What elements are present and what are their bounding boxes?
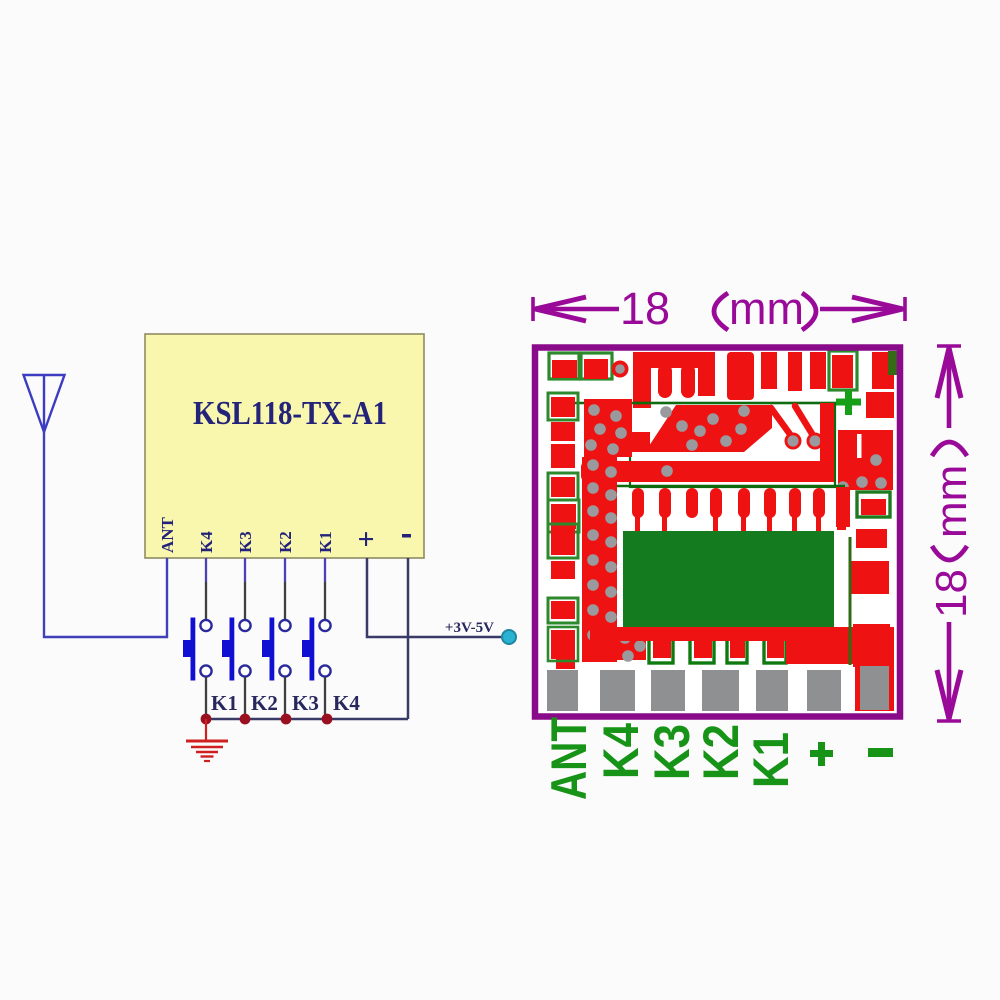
dimension text 18 (mm) horizontal — [620, 283, 816, 334]
copper block mid-left with vias — [584, 399, 632, 457]
svg-text:mm: mm — [927, 465, 976, 538]
pad K4 gray — [600, 670, 635, 711]
label K3 — [292, 691, 319, 715]
power +3V-5V — [445, 620, 516, 644]
svg-text:K4: K4 — [593, 723, 649, 779]
label K4 — [333, 691, 360, 715]
label K2 — [251, 691, 278, 715]
push button S3 — [262, 618, 291, 720]
silk pad right R1 — [857, 492, 890, 517]
svg-text:+3V-5V: +3V-5V — [445, 620, 494, 636]
svg-text:K3: K3 — [236, 531, 255, 553]
copper band below IC right — [786, 627, 894, 664]
copper pad right R2 — [856, 529, 887, 548]
pad K3 gray — [651, 670, 685, 711]
silk module outline — [630, 403, 835, 487]
pad label K3 — [644, 724, 700, 780]
copper right region with vias — [837, 392, 894, 493]
wire K4 pin to switch — [205, 558, 207, 620]
module U1 KSL118-TX-A1 — [145, 334, 424, 558]
copper trace top staple — [633, 352, 715, 408]
silk pads below IC — [649, 634, 786, 663]
svg-text:K2: K2 — [276, 531, 295, 553]
pad label - — [868, 748, 893, 757]
copper column left with via grid — [582, 457, 617, 662]
pad + gray — [807, 670, 841, 711]
copper strip right edge — [837, 488, 846, 530]
junction node J2 — [240, 714, 251, 725]
push button S2 — [222, 618, 251, 720]
dimension arrow vertical 18mm — [937, 346, 961, 721]
silk line module bottom — [600, 485, 845, 488]
pad ANT gray — [547, 670, 578, 711]
silk line right vertical — [849, 537, 852, 665]
pad label K1 — [743, 732, 799, 788]
pad K1 gray — [756, 670, 788, 711]
pin label K3 — [236, 531, 255, 553]
ground — [186, 719, 228, 761]
copper finger pads row — [632, 487, 850, 531]
copper pad top-right TR2 — [872, 351, 897, 389]
pin label + — [357, 523, 374, 556]
silk pads lower-left column — [548, 524, 578, 669]
svg-text:K4: K4 — [333, 691, 360, 715]
push button S4 — [302, 618, 331, 720]
pad K2 gray — [702, 670, 739, 711]
pcb board outline — [535, 348, 900, 717]
copper pin bars top — [727, 352, 826, 400]
copper block lower-left with vias — [590, 629, 646, 662]
svg-text:mm: mm — [729, 283, 804, 334]
pad label K2 — [693, 724, 749, 780]
wire minus pin to rail — [407, 558, 410, 719]
wire ground rail — [205, 718, 408, 721]
svg-text:K4: K4 — [197, 531, 216, 553]
dimension text 18 (mm) vertical — [927, 442, 976, 618]
silk pad top-right TR1 — [829, 351, 857, 390]
copper strip right of module — [820, 403, 834, 482]
copper strip below IC — [592, 627, 894, 641]
label K1 — [211, 691, 238, 715]
copper diagonal traces with via ends — [771, 406, 824, 450]
pin label K4 — [197, 531, 216, 553]
pad label + — [810, 742, 833, 766]
svg-text:K1: K1 — [211, 691, 238, 715]
copper horizontal band — [581, 461, 833, 482]
svg-text:KSL118-TX-A1: KSL118-TX-A1 — [193, 395, 387, 432]
via V1 — [612, 361, 629, 378]
wire + pin to supply — [367, 558, 503, 637]
svg-text:K1: K1 — [743, 732, 799, 788]
svg-text:K2: K2 — [693, 724, 749, 780]
IC U2 body — [623, 531, 834, 628]
svg-text:K3: K3 — [644, 724, 700, 780]
junction node J1 — [201, 714, 212, 725]
push button S1 — [183, 618, 212, 720]
wire K1 pin to switch — [324, 558, 326, 620]
PCB inner background — [538, 351, 897, 713]
svg-text:18: 18 — [927, 569, 976, 618]
pin label - — [402, 534, 411, 538]
wire K2 pin to switch — [284, 558, 286, 620]
svg-text:K3: K3 — [292, 691, 319, 715]
junction node J4 — [322, 714, 333, 725]
svg-text:+: + — [357, 523, 374, 556]
pin label K1 — [316, 531, 335, 553]
pad label K4 — [593, 723, 649, 779]
silk cross fiducial — [836, 390, 861, 415]
pin label K2 — [276, 531, 295, 553]
svg-text:K2: K2 — [251, 691, 278, 715]
svg-text:ANT: ANT — [158, 516, 177, 553]
wire ANT net — [44, 430, 167, 637]
svg-text:18: 18 — [620, 283, 670, 334]
svg-text:K1: K1 — [316, 531, 335, 553]
PCB copper top-left silk pads C1 — [549, 353, 612, 379]
antenna E1 — [24, 375, 65, 432]
dimension arrow horizontal 18mm — [533, 297, 905, 321]
junction node J3 — [281, 714, 292, 725]
copper pads right column lower — [851, 561, 890, 667]
silk line module top — [560, 402, 838, 405]
svg-text:ANT: ANT — [541, 717, 597, 800]
copper central blob with vias — [628, 405, 772, 452]
pad - gray with copper sliver — [855, 658, 894, 711]
wire K3 pin to switch — [244, 558, 246, 620]
pad label ANT — [541, 717, 597, 800]
silk pads left column — [548, 393, 579, 532]
pin label ANT — [158, 516, 177, 553]
